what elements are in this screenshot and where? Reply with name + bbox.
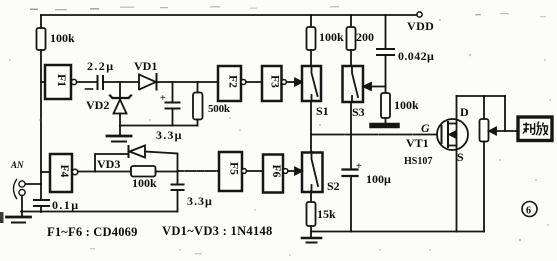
- svg-text:0.042μ: 0.042μ: [398, 49, 434, 63]
- svg-text:500k: 500k: [208, 103, 231, 115]
- svg-text:+: +: [356, 161, 362, 172]
- svg-text:3.3μ: 3.3μ: [156, 128, 183, 142]
- svg-text:100μ: 100μ: [366, 172, 391, 186]
- svg-text:S1: S1: [316, 104, 329, 118]
- svg-text:0.1μ: 0.1μ: [52, 198, 79, 212]
- svg-text:VD1~VD3 : 1N4148: VD1~VD3 : 1N4148: [162, 224, 273, 238]
- svg-text:100k: 100k: [394, 98, 419, 112]
- svg-text:F1: F1: [55, 74, 67, 87]
- svg-text:S2: S2: [327, 179, 340, 193]
- svg-text:F5: F5: [228, 162, 240, 175]
- svg-text:F3: F3: [269, 75, 281, 88]
- svg-text:HS107: HS107: [404, 156, 432, 167]
- svg-text:+: +: [160, 93, 166, 104]
- svg-text:F2: F2: [227, 75, 239, 88]
- svg-text:VDD: VDD: [407, 19, 434, 33]
- svg-text:VT1: VT1: [406, 136, 429, 150]
- svg-text:VD1: VD1: [134, 59, 157, 73]
- svg-text:100k: 100k: [50, 31, 75, 45]
- svg-text:F6: F6: [270, 165, 282, 178]
- svg-text:D: D: [460, 105, 469, 119]
- svg-text:15k: 15k: [317, 207, 336, 221]
- svg-text:100k: 100k: [132, 176, 157, 190]
- svg-text:F1~F6 : CD4069: F1~F6 : CD4069: [47, 225, 138, 239]
- svg-text:2.2μ: 2.2μ: [87, 59, 114, 73]
- svg-text:200: 200: [356, 30, 374, 44]
- svg-text:G: G: [421, 121, 430, 135]
- svg-text:AN: AN: [10, 160, 24, 170]
- svg-text:F4: F4: [58, 165, 70, 178]
- svg-text:VD2: VD2: [86, 98, 109, 112]
- svg-text:S: S: [457, 150, 464, 164]
- svg-text:6: 6: [526, 206, 531, 217]
- svg-text:3.3μ: 3.3μ: [187, 194, 213, 208]
- svg-text:VD3: VD3: [97, 157, 120, 171]
- svg-text:S3: S3: [352, 105, 365, 119]
- svg-text:100k: 100k: [319, 30, 344, 44]
